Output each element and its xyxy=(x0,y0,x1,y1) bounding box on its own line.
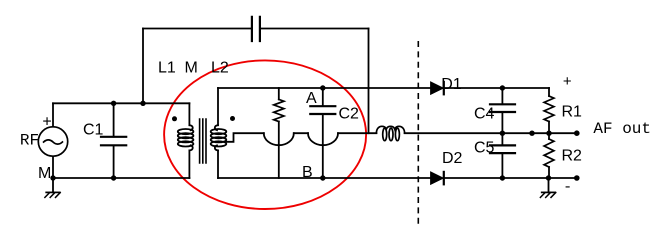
coupling capacitor (top) xyxy=(252,17,260,41)
node B junction dot xyxy=(320,175,325,180)
wire: tap segment xyxy=(294,132,308,134)
junction: R2 bottom xyxy=(546,175,551,180)
svg-text:R2: R2 xyxy=(562,147,583,164)
junction: source/bottom rail xyxy=(50,175,55,180)
wire: coupling-cap right riser xyxy=(368,29,370,134)
junction: C4 top xyxy=(500,85,505,90)
svg-text:AF out: AF out xyxy=(593,120,651,138)
wire: top loop left xyxy=(143,28,252,30)
svg-text:C4: C4 xyxy=(474,106,495,123)
junction: C1 bottom xyxy=(111,175,116,180)
wire: top loop right xyxy=(260,28,369,30)
node A rail xyxy=(218,87,431,89)
transformer core xyxy=(200,119,206,163)
dashed partition line xyxy=(417,41,419,224)
wire: RF source top lead xyxy=(52,103,54,126)
svg-text:L2: L2 xyxy=(211,59,229,76)
red highlight ellipse around transformer xyxy=(164,60,366,209)
wire: D1 cathode rail xyxy=(444,87,549,89)
capacitor C5 xyxy=(490,133,515,178)
svg-text:A: A xyxy=(306,90,317,107)
svg-text:+: + xyxy=(42,114,51,131)
svg-text:D2: D2 xyxy=(442,150,463,167)
svg-text:R1: R1 xyxy=(562,103,583,120)
RF source V1 xyxy=(38,127,67,156)
resistor R2 xyxy=(544,133,554,178)
junction: C4/C5 mid xyxy=(500,131,505,136)
wire: bottom-left rail xyxy=(53,177,189,179)
terminal: AF out xyxy=(574,130,580,136)
wire: tap to choke xyxy=(338,132,376,134)
wire: RF source bottom lead xyxy=(52,157,54,179)
node B rail xyxy=(218,177,431,179)
capacitor C1 xyxy=(101,103,126,178)
junction: C1 top xyxy=(111,101,116,106)
wire: tap hop under resistor lead xyxy=(264,133,294,145)
junction: C5 bottom xyxy=(500,175,505,180)
svg-text:L1: L1 xyxy=(158,59,176,76)
svg-text:-: - xyxy=(563,179,572,196)
RF source sine waveform xyxy=(44,140,63,144)
wire: tap hop under C2 lead xyxy=(308,133,338,145)
transformer T1 phase dot (primary) xyxy=(172,116,177,121)
wire: AF mid rail xyxy=(405,132,577,134)
svg-text:+: + xyxy=(563,74,572,91)
wire: top-left rail xyxy=(53,102,189,104)
diode D1 xyxy=(431,82,444,94)
resistor R1 xyxy=(544,88,554,133)
RF choke L3 xyxy=(376,126,404,140)
diode D2 xyxy=(431,172,444,184)
node A junction dot xyxy=(320,85,325,90)
transformer T1 phase dot (secondary) xyxy=(230,116,235,121)
svg-text:C5: C5 xyxy=(474,140,495,157)
tank resistor xyxy=(274,88,284,178)
ground at R2 xyxy=(540,178,555,197)
wire: coupling-cap left riser xyxy=(142,29,144,104)
wire: bottom-right rail xyxy=(444,177,577,179)
junction: R1/R2 mid xyxy=(546,131,551,136)
svg-text:M: M xyxy=(185,59,198,76)
capacitor C4 xyxy=(490,88,515,133)
svg-text:RF: RF xyxy=(20,131,39,149)
terminal: minus output xyxy=(574,175,580,181)
svg-text:C2: C2 xyxy=(339,105,360,122)
svg-text:B: B xyxy=(302,164,313,181)
svg-text:C1: C1 xyxy=(83,121,104,138)
svg-text:D1: D1 xyxy=(441,76,462,93)
transformer T1 secondary L2 xyxy=(211,88,227,178)
transformer T1 primary L1 xyxy=(178,103,194,178)
wire: secondary center tap xyxy=(225,133,264,142)
svg-text:M: M xyxy=(38,165,51,182)
capacitor C2 xyxy=(310,88,335,178)
junction: mid rail node xyxy=(529,131,534,136)
ground at RF source xyxy=(45,178,60,197)
junction: riser / top-left rail xyxy=(140,101,145,106)
